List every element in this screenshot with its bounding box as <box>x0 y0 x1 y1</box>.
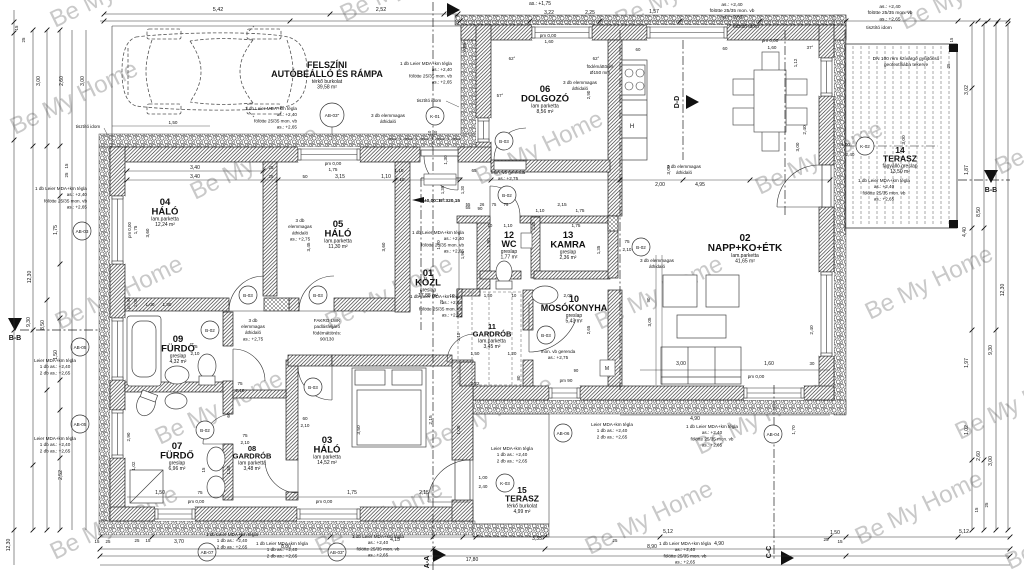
mid bottom wall seg3 <box>804 386 834 400</box>
svg-text:25: 25 <box>823 537 829 542</box>
svg-text:40: 40 <box>433 130 438 135</box>
svg-text:K-03: K-03 <box>500 481 510 486</box>
svg-text:Leier MDA+km tégla1 db as.: +2: Leier MDA+km tégla1 db as.: +2,402 db as… <box>591 422 633 439</box>
svg-text:50: 50 <box>302 174 308 179</box>
window kitchen (top wall) <box>647 25 727 40</box>
svg-text:pm 90: pm 90 <box>560 378 573 383</box>
window haló 04 (left wall) <box>110 196 125 264</box>
svg-text:2,10: 2,10 <box>623 247 632 252</box>
partition south of haló04/05 mid <box>289 298 299 311</box>
window fürdő 07 (bottom wall) <box>155 507 195 521</box>
pebble band right exterior <box>834 15 846 415</box>
svg-text:2,40: 2,40 <box>802 125 808 135</box>
partition közl east seg1 (wc west) <box>477 217 490 289</box>
right exterior wall seg4 <box>819 356 834 400</box>
ref bubble K-02 <box>856 137 874 155</box>
svg-text:75: 75 <box>492 202 497 207</box>
window haló 03 (bottom wall) <box>297 507 360 521</box>
svg-text:5,12: 5,12 <box>959 529 969 535</box>
door gardrób08 swing <box>265 460 298 493</box>
svg-text:1,20: 1,20 <box>508 351 517 356</box>
ref bubble AB-04 <box>764 425 782 443</box>
svg-text:D-D: D-D <box>674 96 681 108</box>
partition dolgozó east / kitchen <box>608 40 622 216</box>
svg-text:2,40: 2,40 <box>479 484 488 489</box>
svg-text:1,70: 1,70 <box>791 425 797 435</box>
svg-text:12,30: 12,30 <box>1000 284 1006 297</box>
stove burners <box>625 69 644 90</box>
left exterior wall seg1 <box>110 147 125 196</box>
left-wing top wall E segment <box>458 147 491 162</box>
partition fürdő09 east seg1 <box>223 312 233 346</box>
svg-text:2,10: 2,10 <box>241 440 250 445</box>
svg-text:25: 25 <box>135 538 140 543</box>
dash-dot terrace axis <box>844 30 846 235</box>
partition south of haló05 <box>334 298 410 311</box>
washing machine mosókonyha <box>600 360 615 376</box>
partition gardrób11|mosókonyha seg2 <box>523 360 533 386</box>
A-A bottom marker <box>433 548 446 562</box>
svg-text:pm 0,00: pm 0,00 <box>316 499 333 504</box>
right exterior wall seg2 <box>819 96 834 165</box>
exterior wall top, segment between windows <box>592 25 647 40</box>
partition dolgozó south segE <box>491 160 610 172</box>
svg-text:1,75: 1,75 <box>329 167 338 172</box>
svg-text:1,35: 1,35 <box>596 245 601 254</box>
carport east wall upper <box>476 25 491 118</box>
svg-text:9,30: 9,30 <box>988 345 994 355</box>
svg-text:10: 10 <box>450 293 455 298</box>
svg-text:3,00: 3,00 <box>795 142 800 151</box>
exterior wall top, E segment <box>727 25 846 40</box>
window living (right wall) <box>819 272 834 356</box>
partition gardrób11|mosókonyha seg1 <box>523 290 533 330</box>
svg-text:90: 90 <box>574 368 579 373</box>
crosshatch pillar 04/05 <box>264 298 289 311</box>
svg-text:B-02: B-02 <box>502 193 512 198</box>
ref bubble AB-03 <box>73 222 91 240</box>
svg-text:1,75: 1,75 <box>347 490 357 496</box>
partition gardrób08 north <box>233 390 286 398</box>
svg-text:1,75: 1,75 <box>53 225 59 235</box>
svg-text:3,00: 3,00 <box>676 361 686 367</box>
svg-text:1,80: 1,80 <box>163 302 172 307</box>
shower fürdő 07 <box>130 470 163 503</box>
door wc swing <box>490 186 520 216</box>
ref bubble B-03 <box>239 286 257 304</box>
svg-text:M: M <box>605 366 609 372</box>
svg-text:62°: 62° <box>593 56 600 61</box>
svg-text:3,02: 3,02 <box>964 85 970 95</box>
svg-text:1,30: 1,30 <box>460 185 465 194</box>
ref bubble B-03 <box>495 132 513 150</box>
wc 12 toilet <box>496 261 512 289</box>
svg-text:1,30: 1,30 <box>443 155 449 165</box>
svg-text:3,35: 3,35 <box>532 536 542 542</box>
partition kamra south / mosókonyha north <box>534 271 610 279</box>
svg-text:2,00: 2,00 <box>655 182 665 188</box>
svg-text:1,87: 1,87 <box>964 165 970 175</box>
dimension chains left <box>13 10 15 565</box>
svg-text:1,00: 1,00 <box>456 425 461 434</box>
ref bubble AB-07 <box>198 543 216 561</box>
svg-text:1,38: 1,38 <box>440 185 445 194</box>
ref bubble AB-05 <box>71 338 89 356</box>
D-D marker <box>686 95 699 109</box>
ref bubble K-01 <box>426 107 444 125</box>
svg-text:8,50: 8,50 <box>40 320 46 330</box>
ref bubble B-03 <box>304 378 322 396</box>
ref bubble B-02 <box>498 186 516 204</box>
dolgozó door swing <box>494 128 526 160</box>
svg-text:pm 0,00: pm 0,00 <box>325 161 342 166</box>
section line B-B right <box>958 179 1010 181</box>
left-wing bottom wall seg3 <box>360 507 473 521</box>
entrance door swing <box>424 156 458 190</box>
terrace 14 deck <box>845 44 957 228</box>
svg-text:B-03: B-03 <box>243 293 253 298</box>
svg-text:2,25: 2,25 <box>585 10 595 16</box>
door mosókonyha swing <box>529 302 576 352</box>
carport boundary <box>112 25 461 27</box>
dining table <box>733 52 807 151</box>
svg-text:1,97: 1,97 <box>964 358 970 368</box>
ref bubble B-03 <box>309 286 327 304</box>
svg-text:60: 60 <box>723 46 728 51</box>
svg-text:pm 0,00: pm 0,00 <box>748 374 765 379</box>
svg-text:1,75: 1,75 <box>576 208 585 213</box>
svg-text:1,75: 1,75 <box>572 223 581 228</box>
partition wc|kamra <box>531 217 540 278</box>
svg-text:15: 15 <box>64 163 69 168</box>
pebble band below left-wing bottom wall <box>99 521 475 535</box>
window haló 05 (top wall) <box>298 147 360 162</box>
mosókonyha sink <box>532 286 558 304</box>
svg-text:26: 26 <box>480 202 485 207</box>
dimension chains right <box>971 24 973 530</box>
svg-text:4,95: 4,95 <box>695 182 705 188</box>
svg-text:10: 10 <box>512 293 517 298</box>
svg-text:2,10: 2,10 <box>301 423 310 428</box>
entry level arrow <box>412 197 424 203</box>
svg-text:1,90: 1,90 <box>486 238 492 248</box>
window nappali (bottom wall) <box>744 386 804 400</box>
svg-text:AB-06: AB-06 <box>557 431 570 436</box>
ref bubble K-03 <box>496 474 514 492</box>
svg-text:2,22: 2,22 <box>471 381 480 386</box>
partition fürdő09/07 east seg2 <box>223 381 233 414</box>
svg-text:55: 55 <box>466 202 471 207</box>
svg-text:1,12: 1,12 <box>793 58 798 67</box>
svg-text:3,60: 3,60 <box>381 242 386 251</box>
section line C-C <box>773 385 775 560</box>
section line B-B left <box>20 329 99 331</box>
svg-text:tisztító idom: tisztító idom <box>76 124 101 129</box>
svg-text:15: 15 <box>201 467 206 472</box>
svg-text:AB-04: AB-04 <box>767 432 780 437</box>
svg-text:pm 0,00: pm 0,00 <box>540 33 557 38</box>
dolgozó door leaf <box>494 161 526 170</box>
svg-text:1,02: 1,02 <box>131 461 136 470</box>
left-wing top wall mid segment <box>360 147 420 162</box>
ref bubble B-03 <box>537 326 555 344</box>
svg-text:4,40: 4,40 <box>962 227 968 237</box>
svg-text:15: 15 <box>14 25 19 30</box>
svg-text:75: 75 <box>192 344 198 349</box>
svg-text:90: 90 <box>646 297 651 302</box>
svg-text:1,00: 1,00 <box>479 475 488 480</box>
svg-text:15: 15 <box>974 507 979 512</box>
svg-text:1,00: 1,00 <box>146 302 155 307</box>
svg-text:as.: +1,75: as.: +1,75 <box>529 1 551 7</box>
svg-text:3,05: 3,05 <box>647 317 652 326</box>
partition fürdő09|fürdő07 <box>125 382 223 392</box>
svg-text:65: 65 <box>471 168 477 173</box>
B-B right marker <box>984 170 998 183</box>
svg-text:3,22: 3,22 <box>544 10 554 16</box>
basin fürdő 07 <box>165 393 187 409</box>
svg-text:80: 80 <box>516 375 521 380</box>
svg-text:1,35: 1,35 <box>531 221 536 230</box>
bathtub fürdő 09 <box>127 316 161 386</box>
svg-text:1,55: 1,55 <box>226 465 231 474</box>
partition mosókonyha east <box>608 290 622 386</box>
svg-text:25: 25 <box>64 172 69 177</box>
svg-text:17,80: 17,80 <box>466 557 479 563</box>
svg-text:37°: 37° <box>807 45 814 50</box>
pebble band left exterior <box>99 147 110 521</box>
svg-text:5,42: 5,42 <box>213 7 224 13</box>
A top marker <box>447 3 460 17</box>
svg-text:2,60: 2,60 <box>59 76 65 86</box>
svg-text:15: 15 <box>837 539 843 544</box>
terrace 15 door swing <box>428 460 470 502</box>
entrance door leaf <box>421 150 458 156</box>
svg-text:pm 90: pm 90 <box>126 297 131 309</box>
svg-text:4,90: 4,90 <box>714 541 724 547</box>
sofa set <box>661 275 741 384</box>
partition haló04|haló05 <box>263 162 277 296</box>
svg-text:AB-05: AB-05 <box>74 422 87 427</box>
pebble band left of carport-east wall <box>461 25 476 134</box>
svg-text:AB-03": AB-03" <box>325 113 340 118</box>
svg-text:2,15: 2,15 <box>419 490 429 496</box>
car (dashed top view) <box>122 26 307 117</box>
svg-text:B-03: B-03 <box>313 293 323 298</box>
entry doormat <box>424 174 456 185</box>
svg-text:AB-03": AB-03" <box>330 550 345 555</box>
terrace-15 west wall upper <box>452 360 473 460</box>
svg-text:3,60: 3,60 <box>145 228 150 237</box>
haló03 north wall segE <box>332 355 452 366</box>
svg-text:95: 95 <box>448 7 454 12</box>
svg-text:25: 25 <box>984 502 989 507</box>
svg-text:1,10: 1,10 <box>504 223 513 228</box>
svg-text:75: 75 <box>624 239 630 244</box>
svg-text:30: 30 <box>810 361 815 366</box>
ref bubble B-02 <box>196 421 214 439</box>
svg-text:15: 15 <box>146 538 151 543</box>
window dining (right wall) <box>819 58 834 96</box>
svg-text:B-03: B-03 <box>499 139 509 144</box>
window dolgozo (top wall) <box>532 25 592 40</box>
svg-text:1,60: 1,60 <box>768 45 777 50</box>
svg-text:8,90: 8,90 <box>647 544 657 550</box>
left-wing top wall W segment <box>110 147 298 162</box>
svg-text:2,15: 2,15 <box>428 415 434 425</box>
partition kamra east seg <box>608 216 618 278</box>
svg-text:A-A: A-A <box>424 556 431 568</box>
svg-text:8,50: 8,50 <box>976 207 982 217</box>
svg-text:10: 10 <box>400 177 405 182</box>
gardrób 11 wardrobe (dashed) <box>458 292 521 385</box>
svg-text:1,02: 1,02 <box>964 425 970 435</box>
partition wc south / gardrób11 north <box>480 271 521 279</box>
svg-text:1,60: 1,60 <box>545 39 554 44</box>
svg-text:pm 0,00: pm 0,00 <box>188 499 205 504</box>
svg-text:10: 10 <box>427 130 432 135</box>
svg-text:tisztító idom: tisztító idom <box>866 25 892 31</box>
door fürdő07|gardrób08 swing <box>203 414 233 444</box>
svg-text:pm 0,00: pm 0,00 <box>127 222 132 238</box>
haló03 north wall segW <box>288 355 332 366</box>
svg-text:62°: 62° <box>509 56 516 61</box>
pebble band below terrace 15 <box>473 524 549 537</box>
door haló05 swing <box>299 276 334 311</box>
section line A-A <box>432 2 434 570</box>
svg-text:1,10: 1,10 <box>536 208 545 213</box>
svg-text:15: 15 <box>95 539 100 544</box>
svg-text:K-01: K-01 <box>430 114 440 119</box>
svg-text:15: 15 <box>949 37 954 42</box>
svg-text:B-03: B-03 <box>541 333 551 338</box>
svg-text:75: 75 <box>237 381 243 386</box>
door gardrób11 swing <box>447 334 475 362</box>
svg-text:60: 60 <box>302 416 308 421</box>
svg-text:1,00: 1,00 <box>841 142 850 147</box>
twin basins fürdő 07 east <box>207 447 225 471</box>
svg-text:1,50: 1,50 <box>830 530 840 536</box>
svg-text:Leier MDA+km tégla1 db as.: +2: Leier MDA+km tégla1 db as.: +2,402 db as… <box>491 446 533 463</box>
svg-text:12,30: 12,30 <box>6 539 12 552</box>
svg-text:B-B: B-B <box>985 187 997 194</box>
svg-text:AB-05: AB-05 <box>74 345 87 350</box>
window fürdő 07 (left wall) <box>110 410 125 458</box>
svg-text:3,40: 3,40 <box>190 165 200 171</box>
svg-text:B-02: B-02 <box>205 328 215 333</box>
partition gardrób08|haló03 seg1 <box>286 360 298 460</box>
svg-text:AB-07: AB-07 <box>201 550 214 555</box>
svg-text:B-02: B-02 <box>636 245 646 250</box>
partition haló05 east / közl west <box>395 162 410 312</box>
ref bubble AB-03" <box>328 543 346 561</box>
pebble band above left-wing top wall <box>99 134 476 147</box>
left-wing bottom wall seg1 <box>110 507 155 521</box>
svg-text:2,40: 2,40 <box>809 325 815 335</box>
left exterior wall seg4 <box>110 458 125 521</box>
door fürdő09 swing <box>233 349 265 381</box>
carport east wall lower <box>476 142 491 162</box>
svg-text:9,30: 9,30 <box>26 317 32 327</box>
exterior wall top, segment W of dolgozo window <box>461 25 532 40</box>
svg-text:1,10: 1,10 <box>456 332 461 341</box>
svg-text:B-03: B-03 <box>308 385 318 390</box>
svg-text:C-C: C-C <box>766 546 773 558</box>
left-wing bottom wall seg2 <box>195 507 297 521</box>
bed haló 03 <box>352 368 426 447</box>
svg-text:pm 0,00: pm 0,00 <box>762 38 779 43</box>
terrace 14 corner posts <box>949 44 958 52</box>
right exterior wall seg1 <box>819 25 834 58</box>
svg-text:1,10: 1,10 <box>395 168 404 173</box>
svg-text:Leier MDA+km tégla1 db as.: +2: Leier MDA+km tégla1 db as.: +2,402 db as… <box>34 436 76 453</box>
svg-text:2,90: 2,90 <box>126 432 131 441</box>
wc 12 small basin <box>521 233 532 248</box>
svg-text:1,10: 1,10 <box>381 174 391 180</box>
partition fürdő07 east seg3 <box>223 444 233 500</box>
svg-text:2,52: 2,52 <box>58 470 64 480</box>
svg-text:2,60: 2,60 <box>976 451 982 461</box>
dimension chains bottom <box>100 536 1010 538</box>
svg-text:75: 75 <box>504 202 509 207</box>
svg-text:1,60: 1,60 <box>764 361 774 367</box>
svg-text:1,50: 1,50 <box>484 293 493 298</box>
svg-text:tisztító idom: tisztító idom <box>417 98 442 103</box>
terrace door leaf <box>822 165 831 207</box>
svg-text:1,50: 1,50 <box>155 490 165 496</box>
door haló04 swing <box>229 276 264 311</box>
svg-text:2,05: 2,05 <box>564 293 573 298</box>
svg-text:3,70: 3,70 <box>174 539 184 545</box>
svg-text:3,40: 3,40 <box>190 174 200 180</box>
dimension chains top <box>104 13 458 15</box>
svg-text:3,00: 3,00 <box>36 76 42 86</box>
left exterior wall seg3 <box>110 380 125 410</box>
svg-text:1,50: 1,50 <box>471 351 480 356</box>
svg-text:3,50: 3,50 <box>356 425 362 435</box>
svg-text:25: 25 <box>106 539 111 544</box>
svg-text:25: 25 <box>269 165 274 170</box>
svg-text:25: 25 <box>21 37 26 42</box>
terrace 15 deck <box>473 414 549 524</box>
mid bottom wall seg1 <box>473 386 549 400</box>
B-B left marker <box>8 318 22 331</box>
partition south of haló04 (fürdő09 north) <box>125 298 229 311</box>
svg-text:75: 75 <box>242 433 248 438</box>
svg-text:25: 25 <box>613 538 618 543</box>
svg-text:3,00: 3,00 <box>988 456 994 466</box>
svg-text:25: 25 <box>946 63 951 68</box>
ref bubble AB-06 <box>554 424 572 442</box>
svg-text:H: H <box>630 124 634 130</box>
toilet fürdő 09 <box>198 354 216 385</box>
svg-text:2,40: 2,40 <box>846 152 855 157</box>
ref bubble AB-03" <box>320 103 344 127</box>
ref bubble AB-05 <box>71 415 89 433</box>
svg-text:3,00: 3,00 <box>80 76 86 86</box>
svg-text:57°: 57° <box>497 93 504 98</box>
svg-text:2,15: 2,15 <box>557 202 567 208</box>
svg-text:10: 10 <box>488 223 493 228</box>
svg-text:1,75: 1,75 <box>133 225 138 234</box>
window fürdő 09 (left wall) <box>110 318 125 380</box>
svg-text:2,65: 2,65 <box>586 325 591 334</box>
svg-text:±0,00=Bf:320,15: ±0,00=Bf:320,15 <box>424 198 460 204</box>
partition hall south segE <box>520 216 610 223</box>
svg-text:Leier MDA+km tégla1 db as.: +2: Leier MDA+km tégla1 db as.: +2,402 db as… <box>34 358 76 375</box>
svg-text:4,90: 4,90 <box>690 416 700 422</box>
interior dim row above rooms 04/05 <box>127 179 830 181</box>
